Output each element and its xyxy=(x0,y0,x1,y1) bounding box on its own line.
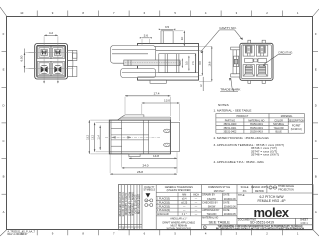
dimension 13.0 (bottom view top inner) xyxy=(142,99,180,121)
svg-text:METRIC: METRIC xyxy=(255,190,264,193)
svg-text:B: B xyxy=(315,175,317,179)
svg-text:14.8: 14.8 xyxy=(153,154,159,158)
side view main body xyxy=(138,44,199,81)
svg-text:±0.4: ±0.4 xyxy=(182,198,187,201)
checked by row xyxy=(202,201,238,208)
svg-text:NOTES: NOTES xyxy=(218,103,229,107)
svg-text:4. APPLICABLE T.P.A : 35150 -: 4. APPLICABLE T.P.A : 35150 - 020x xyxy=(214,160,265,164)
svg-text:COLOR: COLOR xyxy=(274,119,283,122)
front view cavity A2 (top-right) xyxy=(51,46,64,58)
material no cell xyxy=(202,216,230,224)
svg-text:APPROVED BY: APPROVED BY xyxy=(202,209,220,212)
rear view cavity 4 (bottom-right) xyxy=(256,65,268,76)
front view vertical centerlines xyxy=(44,36,58,83)
corner diagonal bottom-left xyxy=(0,230,7,236)
svg-text:FEMALE HSG -4P: FEMALE HSG -4P xyxy=(257,199,286,203)
svg-text:3.5: 3.5 xyxy=(165,25,170,29)
dimension 12 (side view lower right) xyxy=(200,77,203,91)
svg-text:DIMENSION STYLE: DIMENSION STYLE xyxy=(208,186,230,189)
svg-text:35151-0402: 35151-0402 xyxy=(224,131,237,134)
dimension 13.2 (bottom view left middle) xyxy=(92,123,110,152)
svg-text:MM ONLY: MM ONLY xyxy=(214,190,225,193)
design units cell xyxy=(251,185,268,193)
svg-text:11.4: 11.4 xyxy=(97,134,100,139)
svg-text:1. MATERIAL - SEE TABLE: 1. MATERIAL - SEE TABLE xyxy=(214,109,252,113)
rear view cavity 1 (top-left) xyxy=(243,45,254,56)
zone ticks bottom xyxy=(37,230,282,236)
zone numbers top xyxy=(20,11,299,15)
corner diagonal bottom-right xyxy=(313,230,319,236)
svg-text:3.6: 3.6 xyxy=(144,33,149,37)
svg-text:A: A xyxy=(3,210,5,214)
svg-text:MATERIAL: MATERIAL xyxy=(281,115,293,118)
dimension style cell xyxy=(202,185,314,230)
rear view outer housing xyxy=(240,43,273,80)
rear view cavity 3 (bottom-left) xyxy=(243,65,254,76)
label CAVITY NO. xyxy=(201,26,243,53)
svg-text:APPROVED: T.AKANO: APPROVED: T.AKANO xyxy=(131,192,134,216)
svg-text:CHECKED BY: S.HOW: CHECKED BY: S.HOW xyxy=(129,191,131,216)
bottom view main body xyxy=(109,120,170,154)
drawn by row xyxy=(202,193,238,216)
release info rotated text xyxy=(119,191,141,230)
dimension 3.6 (side view top-left) xyxy=(140,33,152,45)
svg-text:BLUE: BLUE xyxy=(275,131,282,134)
bottom view latch plate xyxy=(118,115,171,120)
zone ticks right xyxy=(313,52,318,195)
svg-text:C: C xyxy=(270,187,272,190)
svg-text:REV. A 2016/01/07: REV. A 2016/01/07 xyxy=(8,233,29,236)
label CIRCUIT NO. xyxy=(263,52,293,67)
svg-text:MATERIAL NO: MATERIAL NO xyxy=(248,119,264,122)
bottom view oval window upper xyxy=(164,129,171,133)
dimension 17.4 (bottom view top) xyxy=(125,92,170,116)
svg-text:DATE: 2016/01/05: DATE: 2016/01/05 xyxy=(135,194,138,213)
svg-text:1 PLACE(S): 1 PLACE(S) xyxy=(157,198,170,201)
side view internal bottom horizontals xyxy=(138,73,199,77)
svg-text:SD-35151-0419: SD-35151-0419 xyxy=(250,221,274,225)
front view right polarizing tabs xyxy=(68,50,77,76)
material table grid xyxy=(216,114,304,134)
svg-text:3=1: 3=1 xyxy=(243,190,248,193)
svg-text:35150-0419: 35150-0419 xyxy=(250,131,263,134)
svg-text:3 PLACE(S): 3 PLACE(S) xyxy=(157,205,170,208)
dimension 15.2 (bottom view left outer) xyxy=(86,120,109,154)
note 3 application terminal xyxy=(214,143,285,157)
svg-text:molex: molex xyxy=(253,205,289,220)
svg-text:10: 10 xyxy=(180,37,184,41)
dimension 26.8 (bottom view bottom outer) xyxy=(110,152,177,175)
svg-text:DESIGN UNITS: DESIGN UNITS xyxy=(251,186,268,189)
svg-text:B: B xyxy=(3,175,5,179)
third angle projection cell xyxy=(269,185,294,191)
svg-text:C: C xyxy=(2,139,4,143)
svg-text:PART NO: PART NO xyxy=(225,119,236,122)
svg-text:PC/PBT: PC/PBT xyxy=(292,124,301,127)
quality symbols cell xyxy=(142,185,155,230)
zone ticks left xyxy=(2,52,7,195)
svg-text:35151-0400: 35151-0400 xyxy=(224,123,237,126)
dimension 4.4 (side view internal) xyxy=(179,59,183,68)
svg-text:± 1 °: ± 1 ° xyxy=(182,213,187,216)
svg-text:INCORPORATED AND SHOULD NOT BE: INCORPORATED AND SHOULD NOT BE USED WITH… xyxy=(216,228,305,231)
svg-text:17.4: 17.4 xyxy=(153,92,159,96)
svg-text:DRAWN BY: DRAWN BY xyxy=(202,194,215,197)
svg-text:15.2: 15.2 xyxy=(86,134,89,139)
dimension 3.5 (side view tower) xyxy=(159,25,176,30)
front view housing outline xyxy=(35,44,68,80)
svg-text:(UL94V-0): (UL94V-0) xyxy=(291,128,302,131)
svg-text:SYMBOLS: SYMBOLS xyxy=(144,188,156,191)
front view cavity A1 (top-left) xyxy=(38,46,51,58)
svg-text:SEE TABLE: SEE TABLE xyxy=(208,219,230,224)
side view latch arm lower xyxy=(121,69,156,78)
side view internal top horizontals xyxy=(138,46,199,50)
svg-text:DESCRIPTION: DESCRIPTION xyxy=(288,119,305,122)
svg-text:PRODUCT: PRODUCT xyxy=(236,115,248,118)
svg-text:TITLE: TITLE xyxy=(238,194,245,197)
dimension 10 (side view upper right) xyxy=(174,31,185,47)
svg-text:F: F xyxy=(315,32,317,36)
dimension 4.2 (front view top) xyxy=(44,31,58,36)
corner diagonal top-left xyxy=(0,7,7,16)
svg-text:D: D xyxy=(2,103,4,107)
dimension 14.8 (bottom view bottom inner) xyxy=(129,154,177,159)
svg-text:(UNLESS SPECIFIED): (UNLESS SPECIFIED) xyxy=(167,189,192,192)
svg-text:±0.25: ±0.25 xyxy=(181,201,188,204)
bottom view rear block xyxy=(170,122,179,151)
zone letters right xyxy=(315,32,317,214)
dimension 11.4 (bottom view left inner) xyxy=(97,126,101,150)
svg-text:TRADE MARK: TRADE MARK xyxy=(220,88,241,92)
svg-text:2. MATED HOUSING : 35150-x40x/: 2. MATED HOUSING : 35150-x40x/x42x xyxy=(214,136,270,140)
svg-text:A: A xyxy=(315,210,317,214)
svg-text:1 OF 1: 1 OF 1 xyxy=(300,222,308,225)
svg-text:DRAWN BY: K.SAITO: DRAWN BY: K.SAITO xyxy=(125,193,128,216)
svg-text:CAVITY NO.: CAVITY NO. xyxy=(219,26,236,30)
svg-text:10: 10 xyxy=(20,11,24,15)
svg-text:NATURAL: NATURAL xyxy=(273,123,285,126)
svg-text:24.0: 24.0 xyxy=(142,164,148,168)
svg-text:D: D xyxy=(315,103,317,107)
zone ticks top xyxy=(37,11,282,17)
dimension 7.3 (side view internal) xyxy=(192,54,196,73)
title cell xyxy=(238,194,286,203)
svg-text:PROJECTION: PROJECTION xyxy=(278,188,294,191)
bottom view internal channel xyxy=(111,129,149,147)
dimension 6.50 (front view left) xyxy=(20,49,34,73)
svg-text:DATE: DATE xyxy=(223,201,230,204)
svg-text:26.8: 26.8 xyxy=(137,170,143,174)
svg-text:REV. A K2016-0087: REV. A K2016-0087 xyxy=(138,193,141,214)
rear view cavity 2 (top-right) xyxy=(256,45,268,56)
rear view top bumps xyxy=(248,40,266,43)
rear view TPA slots xyxy=(245,59,267,63)
corner diagonal top-right xyxy=(313,9,319,16)
front view cavity B2 (bottom-right) xyxy=(51,61,64,75)
svg-text:C: C xyxy=(315,139,317,143)
svg-text:DATE: DATE xyxy=(223,209,230,212)
dimension 5.5 (side view internal) xyxy=(186,56,190,71)
side view terminal bar xyxy=(124,60,180,66)
bottom view oval window lower xyxy=(164,143,171,147)
svg-text:16.6: 16.6 xyxy=(209,61,212,66)
side view bottom step xyxy=(150,80,166,83)
svg-text:E: E xyxy=(3,68,5,72)
general tolerances table xyxy=(156,185,201,231)
svg-text:EC NO: K2016-0087-01: EC NO: K2016-0087-01 xyxy=(123,191,125,216)
svg-text:35150-0419: 35150-0419 xyxy=(250,123,263,126)
side view latch arm upper xyxy=(111,46,156,64)
svg-text:E: E xyxy=(315,68,317,72)
front view cavity B1 (bottom-left) xyxy=(38,61,51,75)
dimension 9.9 (side view right inner) xyxy=(199,51,203,76)
front view centerline end arrows xyxy=(43,81,59,83)
dimension 24.0 (bottom view bottom middle) xyxy=(122,155,177,169)
svg-text:ANGULAR ± 1 °: ANGULAR ± 1 ° xyxy=(170,218,187,221)
rear view bottom bumps xyxy=(248,80,266,83)
bottom-left file annotation xyxy=(8,231,36,237)
svg-text:13.0: 13.0 xyxy=(164,99,170,103)
svg-text:F: F xyxy=(3,32,5,36)
svg-text:35150-0419: 35150-0419 xyxy=(250,127,263,130)
rear view left bracket xyxy=(231,47,240,77)
svg-text:CHECKED BY: CHECKED BY xyxy=(202,201,218,204)
svg-text:YELLOW: YELLOW xyxy=(274,127,285,130)
side view terminal cavity box xyxy=(159,54,196,73)
svg-text:35748 = xxxx (XX/T): 35748 = xxxx (XX/T) xyxy=(251,153,279,157)
front view horizontal centerlines xyxy=(29,53,74,69)
bottom view internal verticals xyxy=(122,120,149,154)
dimension 16.6 (side view right outer) xyxy=(199,46,213,81)
side view latch tower xyxy=(161,31,173,44)
title block outline xyxy=(118,185,313,230)
svg-text:ANGULAR: ANGULAR xyxy=(157,213,169,216)
bottom view terminal centerline xyxy=(105,136,160,138)
svg-text:INCH: INCH xyxy=(193,194,199,197)
zone numbers bottom xyxy=(20,232,299,236)
svg-text:DATE: DATE xyxy=(223,194,230,197)
svg-text:WITHIN DIMENSIONS: WITHIN DIMENSIONS xyxy=(167,227,192,230)
bottom view bottom step xyxy=(129,154,140,157)
svg-text:MM: MM xyxy=(182,194,186,197)
release info column xyxy=(118,185,142,230)
svg-text:35151-0401: 35151-0401 xyxy=(224,127,237,130)
svg-text:4.2: 4.2 xyxy=(49,31,54,35)
svg-text:SCALE: SCALE xyxy=(241,186,249,189)
scale cell xyxy=(241,185,253,193)
proprietary notice xyxy=(202,225,305,231)
svg-text:RELEASED 2016/01/06: RELEASED 2016/01/06 xyxy=(119,191,122,216)
svg-text:6.50: 6.50 xyxy=(20,55,24,61)
svg-text:13.2: 13.2 xyxy=(92,134,95,139)
zone letters left xyxy=(2,32,4,214)
label TRADE MARK xyxy=(220,78,241,92)
approved by row xyxy=(202,209,238,216)
svg-text:6.2 PITCH W/W: 6.2 PITCH W/W xyxy=(259,195,284,199)
document number row xyxy=(237,218,313,225)
molex logo xyxy=(237,205,313,221)
svg-text:2 PLACE(S): 2 PLACE(S) xyxy=(157,201,170,204)
svg-text:4 PLACE(S): 4 PLACE(S) xyxy=(157,209,170,212)
material table text xyxy=(224,115,305,134)
svg-text:2016/01/05: 2016/01/05 xyxy=(224,213,237,216)
